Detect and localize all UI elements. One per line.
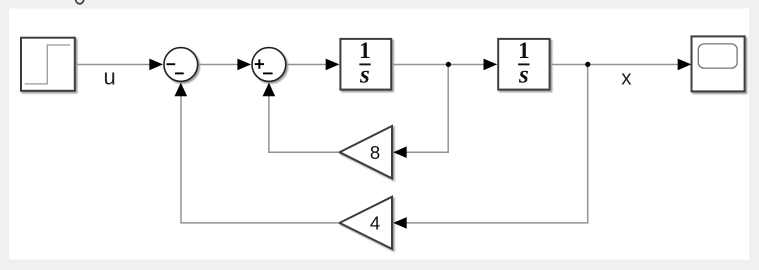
step input block: [21, 38, 75, 91]
wire: node B down to gain 4: [407, 65, 588, 223]
svg-text:s: s: [359, 62, 370, 89]
arrowhead into gain 8: [393, 146, 407, 158]
gain block 4: [340, 197, 392, 249]
wire: sum2 to integrator 1: [287, 64, 327, 66]
wire: gain 8 to sum2 bottom input: [269, 96, 339, 152]
wire: sum1 to sum2: [199, 64, 238, 66]
wire: step to sum1: [76, 64, 150, 66]
svg-text:s: s: [518, 62, 529, 89]
integrator block 1 (1/s): [340, 39, 391, 90]
plus sign (left port of sum 2): [255, 59, 264, 68]
minus sign (bottom port of sum 2): [263, 72, 273, 74]
junction dot node A: [446, 62, 451, 67]
arrowhead into gain 4: [393, 217, 407, 229]
svg-text:1: 1: [518, 38, 530, 63]
svg-text:1: 1: [359, 38, 371, 63]
wire: integrator1 to integrator2: [392, 64, 484, 66]
arrowhead into sum2: [237, 59, 251, 71]
wire: integrator2 to scope: [551, 64, 679, 66]
gain block 8: [340, 126, 392, 178]
svg-text:x: x: [621, 67, 632, 90]
junction dot node B: [585, 62, 590, 67]
arrowhead into sum2 bottom: [263, 83, 276, 97]
sum junction 2: [252, 48, 286, 82]
integrator block 2 (1/s): [498, 39, 549, 90]
wire: gain 4 to sum1 bottom input: [181, 96, 339, 223]
fraction bar of integrator 1: [359, 63, 370, 65]
cropped text fragment (bottom of a letter) at top edge: [76, 0, 84, 4]
arrowhead into integrator 2: [484, 59, 498, 71]
svg-text:u: u: [104, 64, 116, 89]
minus sign (left port of sum 1): [166, 63, 175, 65]
wire: node A down to gain 8: [407, 65, 449, 153]
svg-text:8: 8: [370, 142, 380, 163]
scope block: [692, 36, 745, 91]
minus sign (bottom port of sum 1): [175, 72, 184, 74]
scope screen: [698, 44, 737, 68]
fraction bar of integrator 2: [518, 63, 529, 65]
step icon inside step block: [25, 45, 70, 84]
arrowhead into scope: [678, 59, 692, 71]
sum junction 1: [164, 48, 198, 82]
svg-text:4: 4: [370, 213, 380, 234]
arrowhead into sum1 bottom: [175, 83, 188, 97]
arrowhead into integrator 1: [326, 59, 340, 71]
arrowhead into sum1: [149, 59, 163, 71]
